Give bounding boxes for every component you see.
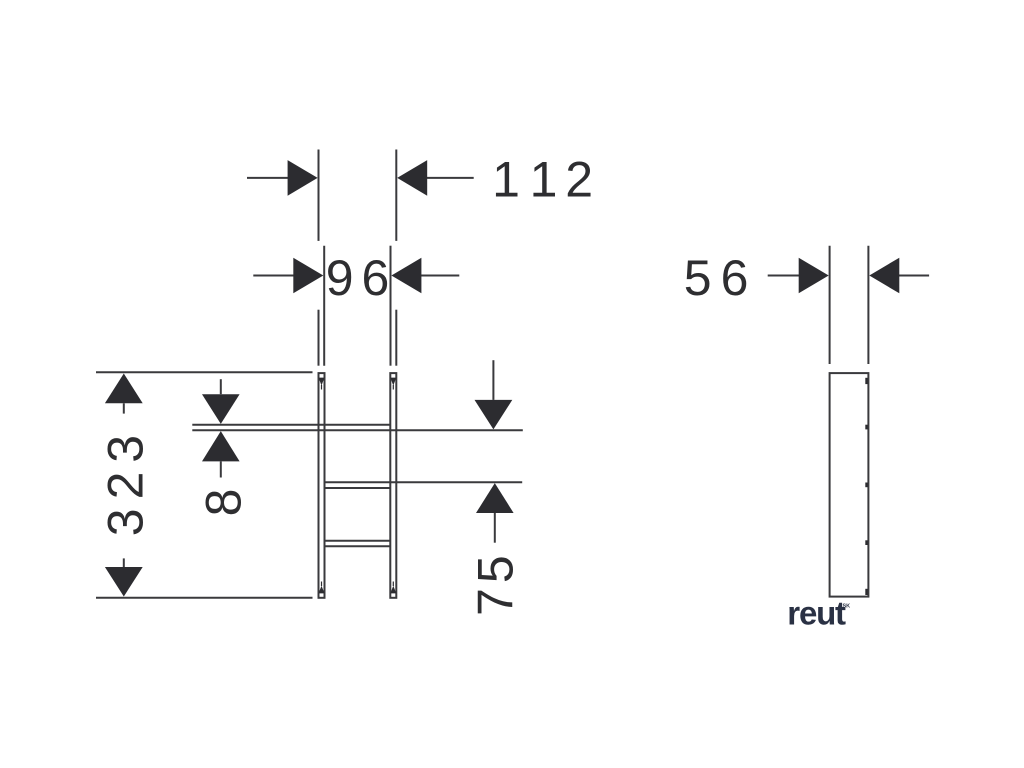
svg-text:9: 9 (326, 250, 354, 306)
svg-text:reut: reut (787, 595, 846, 632)
svg-text:2: 2 (565, 151, 593, 207)
svg-text:5: 5 (468, 555, 524, 583)
svg-text:8: 8 (195, 489, 251, 517)
svg-text:1: 1 (530, 151, 558, 207)
svg-text:6: 6 (361, 250, 389, 306)
svg-text:7: 7 (468, 588, 524, 616)
svg-text:3: 3 (97, 508, 153, 536)
svg-text:5: 5 (684, 250, 712, 306)
svg-text:1: 1 (492, 151, 520, 207)
svg-text:6: 6 (721, 250, 749, 306)
svg-text:2: 2 (97, 472, 153, 500)
svg-text:SK: SK (843, 603, 851, 609)
svg-text:3: 3 (97, 435, 153, 463)
